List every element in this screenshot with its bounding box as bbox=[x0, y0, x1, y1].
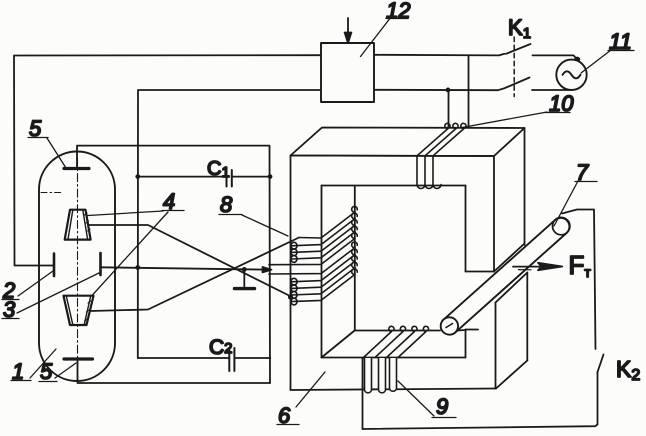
wire electrode 3 to tap arrow bbox=[101, 267, 267, 269]
core lower-right leg slot sliver diagonal bbox=[496, 273, 528, 303]
electrode 5 top plate bbox=[64, 167, 89, 170]
label 7 bbox=[554, 160, 597, 226]
core front top edge bbox=[291, 155, 495, 158]
label 6 bbox=[277, 372, 325, 428]
core back right edge upper bbox=[524, 128, 526, 245]
switch K1 dashed axis bbox=[513, 37, 515, 97]
winding 9 slanted turns on window floor bbox=[364, 326, 429, 357]
rod 7 (moving conductor) bbox=[437, 214, 573, 338]
core back right edge lower bbox=[526, 273, 528, 361]
label 3 bbox=[2, 273, 100, 323]
lead from top electrode to right bus bbox=[77, 146, 270, 383]
junction dot wire3 x bus bbox=[135, 265, 140, 270]
capacitor C1 bbox=[135, 158, 272, 187]
electron tube envelope 1 bbox=[39, 152, 115, 382]
force arrow Ft bbox=[513, 266, 546, 268]
svg-text:9: 9 bbox=[436, 394, 448, 419]
svg-text:C2: C2 bbox=[209, 336, 233, 359]
label 10 bbox=[462, 91, 574, 128]
block 12 bbox=[321, 43, 374, 102]
wire K1 upper to source 11 bbox=[533, 55, 578, 59]
label 11 bbox=[581, 29, 634, 73]
core window bottom edge bbox=[322, 357, 466, 359]
wire rod end to K2 bbox=[562, 210, 596, 350]
tube axis dash-dot centerline bbox=[77, 158, 79, 378]
AC source 11 bbox=[556, 60, 586, 90]
lead from bottom electrode to bottom bus bbox=[78, 361, 271, 384]
svg-text:Fт: Fт bbox=[569, 250, 592, 280]
wire electrode4b to coil8 top (diagonal B) bbox=[91, 238, 300, 312]
label 1 bbox=[11, 349, 56, 384]
wire box12 right to K1 upper contact bbox=[374, 54, 505, 56]
core window right edge upper bbox=[465, 186, 467, 272]
junction blob at source top bbox=[574, 57, 580, 63]
label 4 with two leaders bbox=[88, 189, 184, 296]
core window inner back-bottom edge bbox=[355, 329, 466, 332]
svg-text:K1: K1 bbox=[508, 15, 531, 42]
core front bottom edge bbox=[291, 389, 497, 391]
switch K1 upper blade bbox=[506, 44, 531, 54]
switch K2 blade bbox=[598, 355, 604, 373]
winding 8 lower group turns bbox=[269, 242, 357, 305]
core upper-right leg bottom edge bbox=[466, 271, 495, 273]
winding 8 upper group turns bbox=[269, 206, 357, 264]
electrode 5 bottom plate bbox=[64, 357, 93, 360]
core front face: outer left edge bbox=[290, 156, 292, 391]
core outer right edge (upper leg) bbox=[493, 156, 495, 272]
label 12 bbox=[361, 0, 411, 57]
magnetic core 6: top face bbox=[291, 128, 525, 157]
electrode 4 upper cone bbox=[65, 210, 91, 240]
switch K1 lower blade bbox=[505, 78, 530, 89]
svg-text:5: 5 bbox=[40, 359, 53, 384]
label 2 bbox=[2, 271, 53, 303]
label 9 bbox=[398, 381, 456, 419]
svg-text:C1: C1 bbox=[207, 158, 230, 181]
tube wall tick bbox=[41, 192, 62, 194]
electrode 3 right bar bbox=[99, 253, 102, 275]
winding 9 lead down to bottom wire bbox=[362, 358, 364, 429]
winding 10 lead to upper wire bbox=[468, 55, 470, 127]
ground bbox=[235, 267, 255, 289]
winding 10 lead to lower wire (junction dot) bbox=[448, 90, 450, 127]
core notch floor front edge bbox=[466, 329, 479, 331]
core window inner back-left edge bbox=[354, 187, 356, 331]
winding 9 hanging loops below core bbox=[365, 358, 397, 393]
electrode 4 lower cone bbox=[64, 296, 94, 325]
label 8 bbox=[219, 192, 288, 236]
wire K1 lower to source 11 bottom bbox=[532, 89, 572, 91]
core window top edge bbox=[322, 185, 466, 187]
label 5 (bottom) bbox=[39, 359, 76, 384]
core window inner corner diagonal bbox=[322, 331, 355, 358]
wire top-left loop (electrode 2 to K1 upper) bbox=[14, 55, 321, 265]
winding 10 turns on top bar bbox=[417, 123, 466, 188]
svg-text:8: 8 bbox=[220, 192, 233, 217]
wire K2 to bottom run bbox=[363, 372, 598, 429]
core lower-right leg front right edge bbox=[495, 303, 497, 389]
input arrow into block 12 bbox=[347, 18, 349, 33]
wire box12 lower left to vertical bus bbox=[138, 90, 321, 358]
core upper-right leg side diagonal bbox=[494, 244, 525, 272]
wire box12 right lower to K1 lower contact bbox=[374, 88, 504, 90]
capacitor C2 bbox=[138, 336, 270, 371]
wire electrode4a to coil8 bottom (diagonal A) bbox=[88, 225, 291, 297]
core window right edge lower bbox=[465, 330, 467, 358]
core bottom-right corner diagonal bbox=[496, 361, 527, 389]
core window left edge bbox=[321, 186, 323, 358]
electrode 2 left bar bbox=[53, 254, 56, 277]
svg-text:K2: K2 bbox=[616, 356, 640, 384]
label 5 (top) bbox=[28, 116, 66, 168]
